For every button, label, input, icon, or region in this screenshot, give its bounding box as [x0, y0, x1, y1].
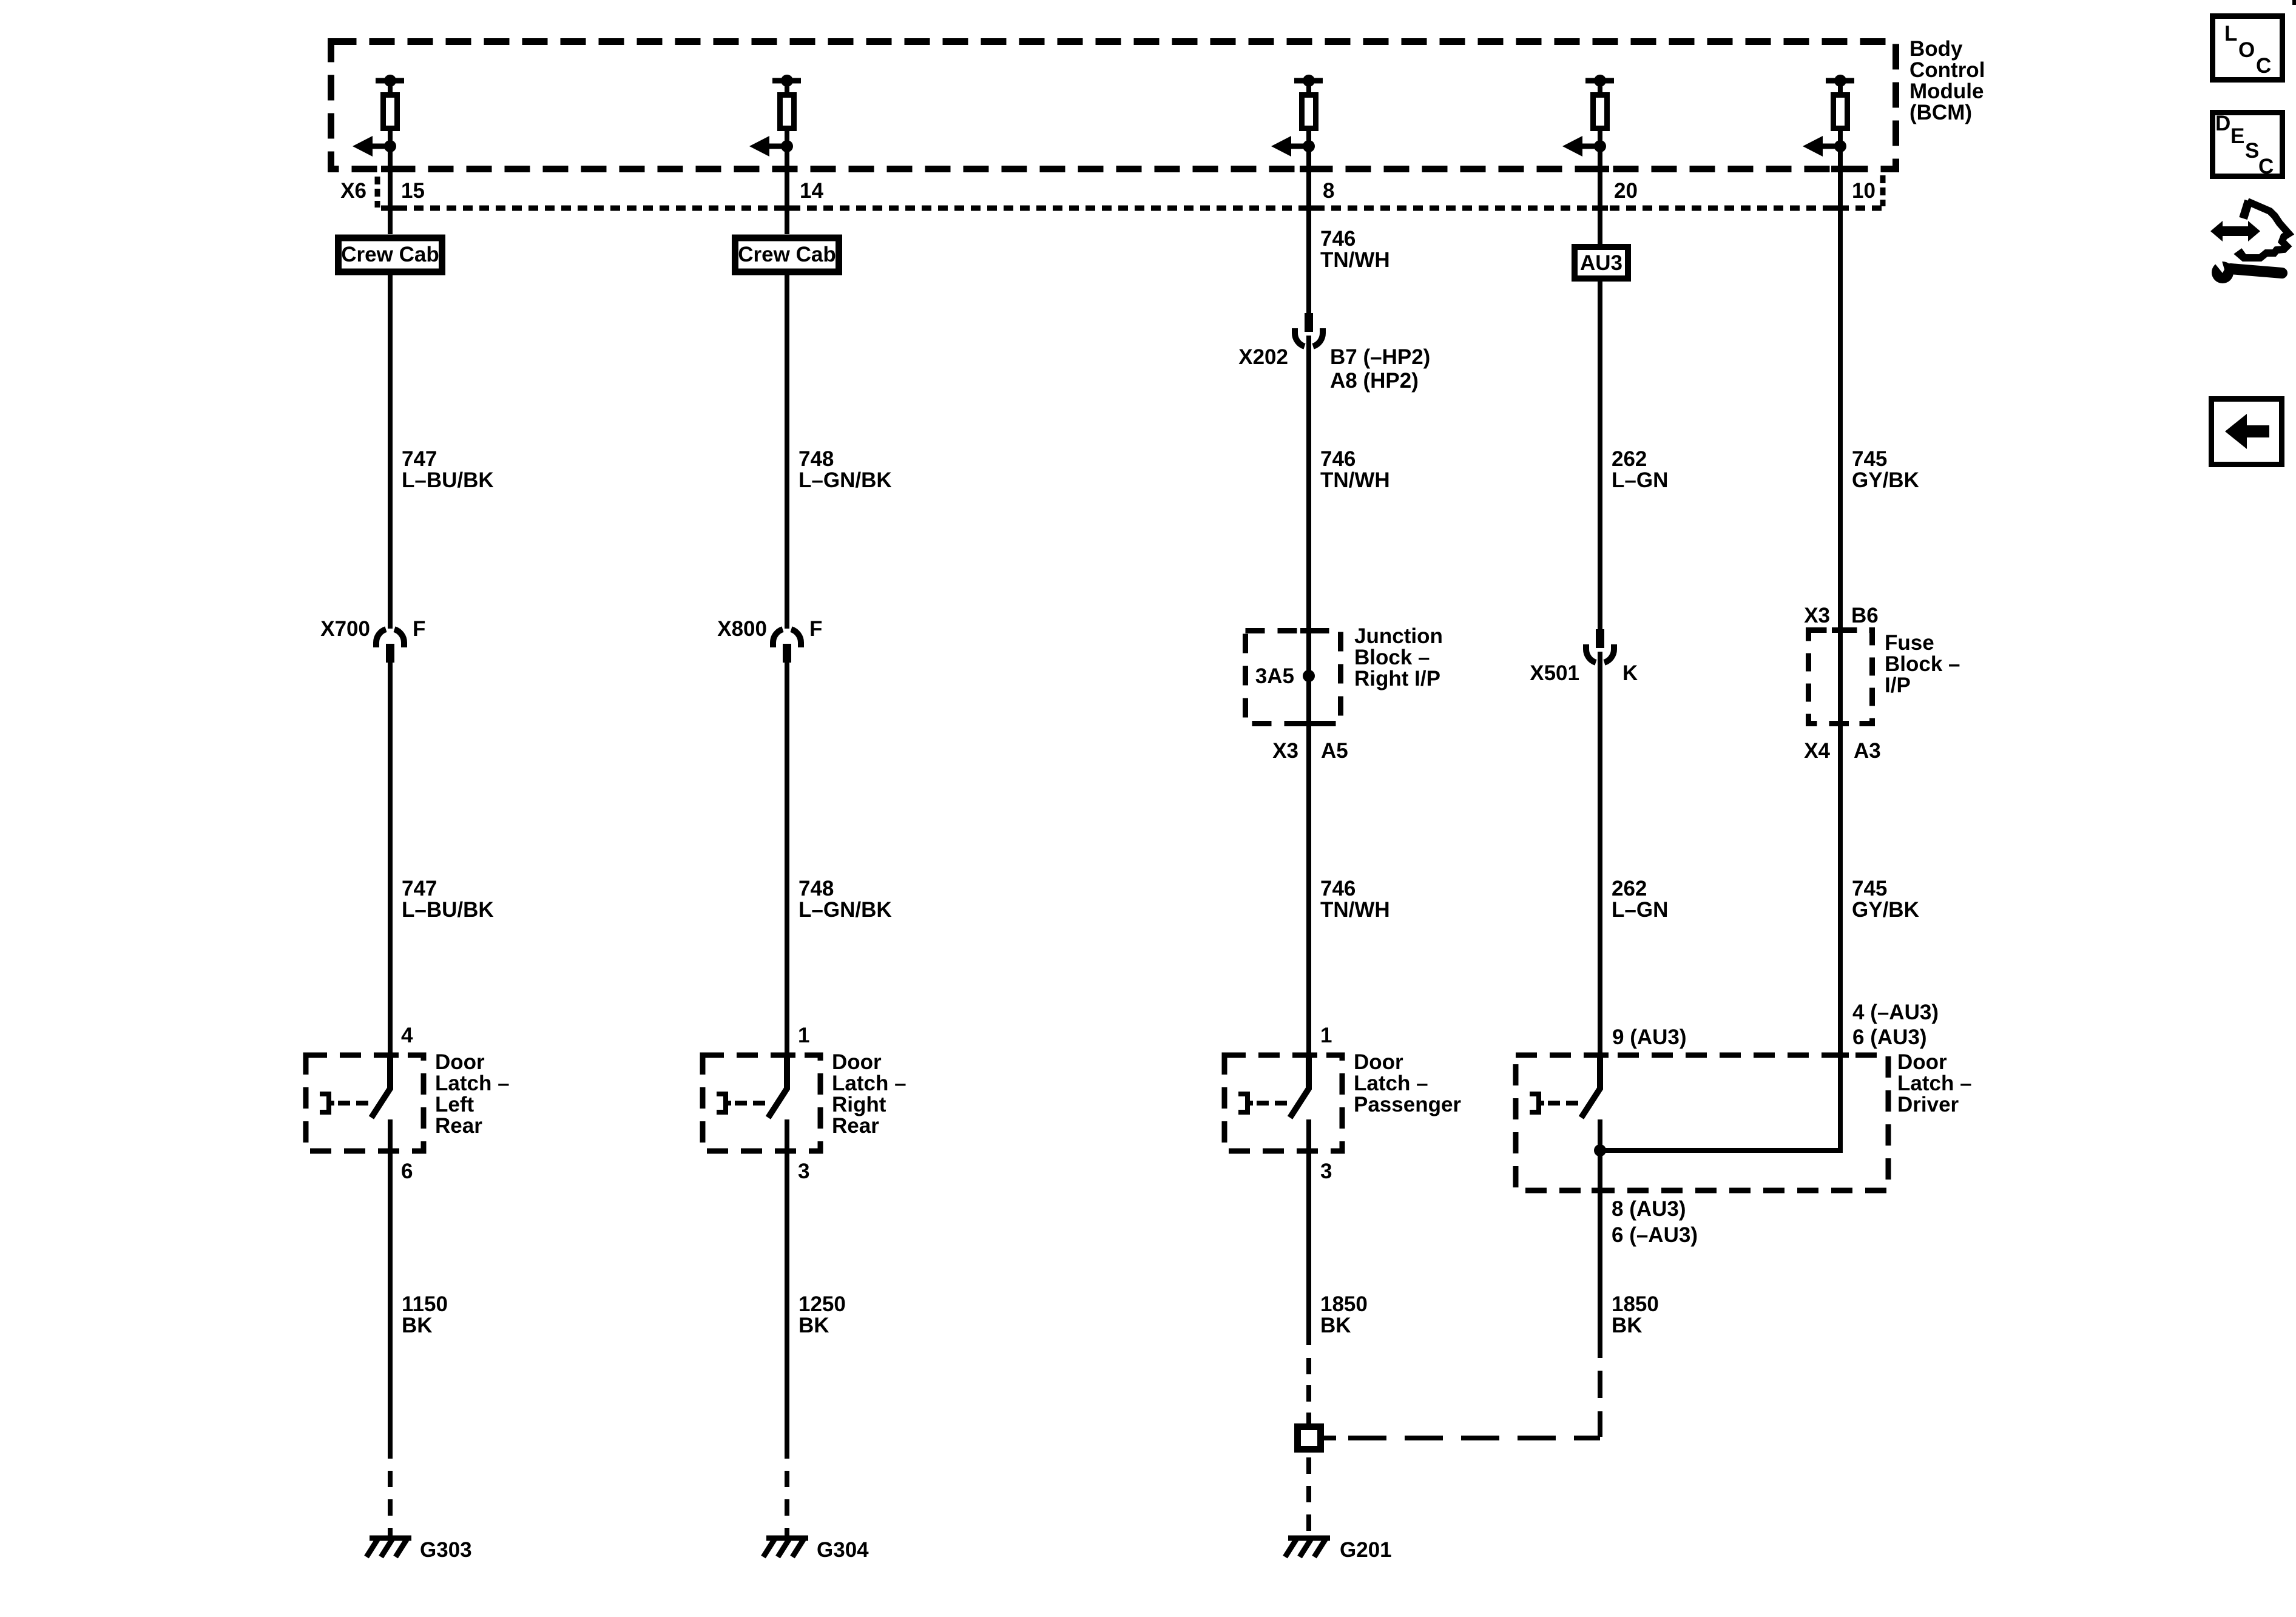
svg-text:C: C: [2258, 155, 2274, 178]
in-line connector X700 pin F: [376, 629, 404, 663]
svg-text:9 (AU3): 9 (AU3): [1612, 1025, 1687, 1049]
wire crossing tick (BCM bottom edge): [1831, 166, 1849, 172]
svg-text:Crew Cab: Crew Cab: [341, 243, 439, 266]
svg-text:A5: A5: [1321, 739, 1348, 763]
svg-text:1850: 1850: [1612, 1292, 1659, 1316]
BCM internal node dot + arrow (pin 10): [1803, 136, 1846, 157]
wire: Crew Cab to connector X700: [388, 274, 393, 629]
svg-text:747: 747: [402, 447, 437, 471]
svg-text:Latch –: Latch –: [435, 1072, 510, 1095]
Junction Block - Right I/P dashed box: [1246, 631, 1341, 724]
Body Control Module (BCM) dashed box: [331, 42, 1896, 169]
wire: Door Latch Driver down (1850 BK): [1598, 1190, 1602, 1358]
wire 4 crossing tick (driver box bottom): [1592, 1188, 1609, 1193]
BCM label text: [1909, 37, 1985, 124]
svg-text:BK: BK: [1612, 1314, 1643, 1337]
wire: BCM pin 8 to connector X202: [1306, 146, 1311, 314]
wire: X202 to Junction Block: [1306, 336, 1311, 628]
wire: BCM pin 10 to Fuse Block: [1838, 146, 1843, 627]
Door Latch - Passenger label: [1354, 1050, 1461, 1116]
wire label 748 L-GN/BK (lower): [799, 877, 892, 922]
wire label 745 GY/BK (lower): [1852, 877, 1919, 922]
ground symbol G304: [763, 1538, 808, 1557]
wire crossing tick (latch box bottom): [778, 1149, 795, 1154]
junction dot (driver latch to fuse feed): [1594, 1144, 1606, 1156]
BCM output driver / resistor (pin 15): [376, 75, 404, 146]
wire label 748 L-GN/BK (upper): [799, 447, 892, 492]
wire: X700 to Door Latch Left Rear: [388, 663, 393, 1055]
wire: driver latch lower contact through box: [1598, 1119, 1602, 1190]
svg-text:Block –: Block –: [1354, 646, 1430, 669]
connector label X501 / K: [1530, 661, 1638, 685]
Door Latch - Left Rear label: [435, 1050, 510, 1138]
door latch dashed box: [703, 1055, 820, 1151]
door latch switch contact (upper) + blade: [768, 1055, 787, 1118]
svg-text:8: 8: [1323, 179, 1334, 203]
svg-text:L–GN/BK: L–GN/BK: [799, 898, 892, 922]
wire crossing tick (BCM bottom edge): [1300, 166, 1318, 172]
wire crossing tick (latch box bottom): [1300, 1149, 1317, 1154]
BCM output driver / resistor (pin 20): [1585, 75, 1614, 146]
in-line connector X202: [1295, 313, 1323, 346]
wire crossing tick (X6 band): [1301, 206, 1317, 211]
svg-text:I/P: I/P: [1885, 673, 1911, 697]
svg-text:4: 4: [401, 1024, 413, 1047]
wire: X800 to Door Latch Right Rear: [785, 663, 789, 1055]
svg-text:746: 746: [1320, 877, 1356, 900]
svg-text:B6: B6: [1851, 604, 1879, 627]
wire: X501 to Door Latch Driver: [1598, 652, 1602, 1055]
svg-text:E: E: [2230, 124, 2244, 148]
wire 4 crossing tick (driver box top): [1592, 1053, 1609, 1058]
svg-text:Junction: Junction: [1354, 624, 1443, 648]
svg-text:746: 746: [1320, 447, 1356, 471]
wire 5 crossing tick (driver box top): [1832, 1053, 1849, 1058]
svg-text:Door: Door: [832, 1050, 882, 1074]
svg-text:6 (AU3): 6 (AU3): [1852, 1025, 1927, 1049]
svg-text:262: 262: [1612, 447, 1647, 471]
svg-text:TN/WH: TN/WH: [1320, 248, 1390, 272]
connector label X700 / F: [320, 617, 425, 641]
svg-text:1: 1: [798, 1024, 809, 1047]
Crew Cab option box: [339, 238, 442, 272]
wire crossing tick (X6 band): [1832, 206, 1848, 211]
wire crossing tick (X6 band): [1592, 206, 1608, 211]
svg-text:1150: 1150: [402, 1292, 448, 1316]
wire label 747 L-BU/BK (lower): [402, 877, 494, 922]
wire: BCM pin 14 to Crew Cab box: [785, 146, 789, 234]
svg-text:15: 15: [401, 179, 425, 203]
wire: BCM pin 20 to AU3 box: [1598, 146, 1602, 244]
svg-text:Rear: Rear: [832, 1114, 879, 1138]
dashed link (vertical, wire 1850 BK driver): [1598, 1371, 1602, 1437]
connector pins X3 / A5 label: [1272, 739, 1348, 763]
BCM internal node dot + arrow (pin 15): [353, 136, 396, 157]
svg-text:3: 3: [798, 1160, 809, 1183]
svg-text:K: K: [1622, 661, 1638, 685]
svg-text:D: D: [2215, 112, 2230, 135]
BCM internal node dot + arrow (pin 8): [1271, 136, 1315, 157]
door latch dashed box: [306, 1055, 424, 1151]
svg-text:(BCM): (BCM): [1909, 101, 1972, 124]
svg-text:Rear: Rear: [435, 1114, 482, 1138]
wire crossing tick (X6 band): [382, 206, 398, 211]
svg-text:L–GN: L–GN: [1612, 898, 1668, 922]
svg-text:GY/BK: GY/BK: [1852, 468, 1919, 492]
wire crossing tick (fuse block bottom): [1832, 721, 1849, 726]
svg-text:AU3: AU3: [1580, 251, 1622, 275]
splice junction square: [1298, 1427, 1321, 1450]
svg-text:BK: BK: [402, 1314, 433, 1337]
wire crossing tick (latch box bottom): [382, 1149, 399, 1154]
svg-text:746: 746: [1320, 227, 1356, 251]
svg-text:6 (–AU3): 6 (–AU3): [1612, 1223, 1698, 1247]
svg-text:G201: G201: [1340, 1538, 1392, 1562]
latch mechanical linkage symbol: [320, 1094, 371, 1112]
svg-text:X800: X800: [717, 617, 767, 641]
wire crossing tick (junction block bottom): [1300, 721, 1317, 726]
wire crossing tick (BCM bottom edge): [381, 166, 399, 172]
svg-text:Latch –: Latch –: [832, 1072, 907, 1095]
in-line connector X501 pin K: [1586, 629, 1614, 663]
latch mechanical linkage symbol: [1530, 1094, 1581, 1112]
Door Latch - Driver label: [1897, 1050, 1972, 1116]
X6 band right separator: [1880, 175, 1886, 206]
svg-text:B7 (–HP2): B7 (–HP2): [1330, 345, 1430, 369]
wire label 262 L-GN (lower): [1612, 877, 1668, 922]
wire crossing tick (X6 band): [779, 206, 795, 211]
svg-text:TN/WH: TN/WH: [1320, 468, 1390, 492]
svg-text:X3: X3: [1804, 604, 1830, 627]
svg-text:3: 3: [1320, 1160, 1332, 1183]
wire: Door Latch Left Rear to ground lead: [388, 1151, 393, 1459]
svg-text:4 (–AU3): 4 (–AU3): [1852, 1001, 1939, 1024]
svg-text:Passenger: Passenger: [1354, 1093, 1461, 1116]
svg-text:Door: Door: [1897, 1050, 1947, 1074]
X6 band left separator: [375, 177, 380, 208]
svg-text:Block –: Block –: [1885, 652, 1960, 676]
connector pins X4 / A3 label: [1804, 739, 1881, 763]
wire label 746 TN/WH (mid): [1320, 447, 1390, 492]
Junction Block - Right I/P label: [1354, 624, 1443, 690]
svg-text:20: 20: [1614, 179, 1638, 203]
dashed ground lead G201: [1306, 1453, 1311, 1536]
door latch switch contact (lower): [785, 1119, 789, 1151]
wire label 746 TN/WH (lower): [1320, 877, 1390, 922]
svg-text:TN/WH: TN/WH: [1320, 898, 1390, 922]
svg-text:748: 748: [799, 877, 834, 900]
svg-text:745: 745: [1852, 447, 1887, 471]
BCM output driver / resistor (pin 10): [1826, 75, 1854, 146]
connector label X800 / F: [717, 617, 822, 641]
door latch switch contact (lower): [388, 1119, 393, 1151]
svg-text:Crew Cab: Crew Cab: [738, 243, 836, 266]
latch mechanical linkage symbol: [1238, 1094, 1290, 1112]
wire label 1850 BK (driver): [1612, 1292, 1659, 1337]
svg-text:Door: Door: [1354, 1050, 1403, 1074]
DESC icon box: [2213, 112, 2283, 178]
wire label 262 L-GN (upper): [1612, 447, 1668, 492]
wire crossing tick (latch box top): [1300, 1053, 1317, 1058]
svg-text:1250: 1250: [799, 1292, 846, 1316]
back arrow icon box: [2212, 399, 2282, 465]
svg-text:Module: Module: [1909, 79, 1984, 103]
svg-text:1: 1: [1320, 1024, 1332, 1047]
door latch switch contact (upper) + blade: [371, 1055, 390, 1118]
dashed ground lead G303: [388, 1471, 393, 1536]
svg-text:X700: X700: [320, 617, 370, 641]
door latch switch contact (lower): [1306, 1119, 1311, 1151]
svg-text:748: 748: [799, 447, 834, 471]
wire: Crew Cab to connector X800: [785, 274, 789, 629]
in-line connector X800 pin F: [773, 629, 801, 663]
Door Latch - Right Rear label: [832, 1050, 907, 1138]
pins 8 (AU3) / 6 (-AU3) label: [1612, 1197, 1698, 1247]
wire: Fuse Block to Door Latch Driver (745 GY/BK), corner into latch: [1602, 627, 1840, 1150]
svg-text:F: F: [413, 617, 425, 641]
svg-text:Left: Left: [435, 1093, 474, 1116]
diagnostic/test hand icon: hand outline: [2240, 201, 2289, 258]
wire: AU3 to connector X501: [1598, 282, 1602, 630]
door latch dashed box: [1224, 1055, 1342, 1151]
wire crossing tick (latch box top): [382, 1053, 399, 1058]
wire label 746 TN/WH (top): [1320, 227, 1390, 272]
door latch switch contact (upper) + blade: [1290, 1055, 1309, 1118]
LOC icon box: [2213, 16, 2283, 80]
svg-text:S: S: [2245, 139, 2259, 163]
svg-text:Latch –: Latch –: [1897, 1072, 1972, 1095]
svg-text:BK: BK: [1320, 1314, 1351, 1337]
svg-text:O: O: [2238, 38, 2255, 62]
latch mechanical linkage symbol: [717, 1094, 768, 1112]
ground symbol G201: [1285, 1538, 1330, 1557]
svg-text:262: 262: [1612, 877, 1647, 900]
svg-text:GY/BK: GY/BK: [1852, 898, 1919, 922]
svg-text:L–GN: L–GN: [1612, 468, 1668, 492]
svg-text:F: F: [809, 617, 822, 641]
wire crossing tick (latch box top): [778, 1053, 795, 1058]
svg-text:Fuse: Fuse: [1885, 631, 1934, 655]
connector X6 pin band dotted line: [381, 206, 1883, 211]
dashed link splice to driver latch ground lead (horizontal): [1348, 1436, 1600, 1440]
diagnostic/test hand icon: double arrow: [2210, 221, 2260, 241]
svg-text:L–GN/BK: L–GN/BK: [799, 468, 892, 492]
svg-text:Right: Right: [832, 1093, 886, 1116]
wire: Door Latch Passenger down (1850 BK): [1306, 1151, 1311, 1345]
Fuse Block - I/P dashed box: [1809, 630, 1872, 724]
svg-text:C: C: [2256, 54, 2271, 78]
svg-text:L: L: [2224, 22, 2237, 46]
BCM output driver / resistor (pin 14): [772, 75, 801, 146]
svg-text:10: 10: [1852, 179, 1876, 203]
wire label 1250 BK: [799, 1292, 846, 1337]
wire: Door Latch Right Rear to ground lead: [785, 1151, 789, 1459]
svg-text:1850: 1850: [1320, 1292, 1368, 1316]
ground symbol G303: [366, 1538, 411, 1557]
svg-text:X3: X3: [1272, 739, 1298, 763]
svg-text:747: 747: [402, 877, 437, 900]
svg-text:14: 14: [800, 179, 823, 203]
wire label 1850 BK (passenger): [1320, 1292, 1368, 1337]
svg-text:Control: Control: [1909, 58, 1985, 82]
svg-text:Right I/P: Right I/P: [1354, 667, 1440, 690]
svg-text:X202: X202: [1238, 345, 1288, 369]
wire label 1150 BK: [402, 1292, 448, 1337]
splice right stub: [1323, 1436, 1336, 1440]
Fuse Block - I/P label: [1885, 631, 1960, 697]
door latch switch contact (lower): [1598, 1119, 1602, 1151]
svg-text:BK: BK: [799, 1314, 829, 1337]
svg-text:745: 745: [1852, 877, 1887, 900]
wire: Junction Block to Door Latch Passenger: [1306, 726, 1311, 1055]
wire crossing tick (junction block top): [1300, 628, 1317, 633]
pins 4 (-AU3) / 6 (AU3) label: [1852, 1001, 1939, 1049]
connector pins X3 / B6 label: [1804, 604, 1879, 627]
svg-text:3A5: 3A5: [1255, 664, 1294, 688]
wire: BCM pin 15 to Crew Cab box: [388, 146, 393, 234]
svg-text:L–BU/BK: L–BU/BK: [402, 898, 494, 922]
node 3A5 dot: [1303, 670, 1315, 682]
dashed lead to splice: [1306, 1358, 1311, 1423]
wire crossing tick (BCM bottom edge): [778, 166, 796, 172]
BCM internal node dot + arrow (pin 14): [749, 136, 793, 157]
svg-text:X4: X4: [1804, 739, 1830, 763]
Door Latch - Driver dashed box: [1516, 1055, 1888, 1190]
BCM internal node dot + arrow (pin 20): [1562, 136, 1606, 157]
svg-text:X501: X501: [1530, 661, 1579, 685]
BCM output driver / resistor (pin 8): [1294, 75, 1323, 146]
door latch switch contact (upper) + blade: [1581, 1055, 1600, 1118]
connector label X202 / B7 (-HP2) A8 (HP2): [1238, 345, 1430, 393]
page corner mark: [2292, 0, 2296, 5]
wire crossing tick (fuse block top): [1832, 627, 1849, 633]
wire crossing tick (BCM bottom edge): [1591, 166, 1609, 172]
svg-text:8 (AU3): 8 (AU3): [1612, 1197, 1686, 1221]
svg-text:X6: X6: [340, 179, 366, 203]
svg-text:Driver: Driver: [1897, 1093, 1959, 1116]
wire label 747 L-BU/BK (upper): [402, 447, 494, 492]
diagnostic/test hand icon: wrench: [2212, 259, 2282, 283]
wire through junction block: [1306, 628, 1311, 726]
svg-text:Latch –: Latch –: [1354, 1072, 1428, 1095]
AU3 option box: [1575, 247, 1628, 279]
wire label 745 GY/BK (upper): [1852, 447, 1919, 492]
Crew Cab option box: [735, 238, 839, 272]
svg-text:A8 (HP2): A8 (HP2): [1330, 369, 1419, 393]
svg-text:Door: Door: [435, 1050, 485, 1074]
svg-text:G304: G304: [817, 1538, 869, 1562]
dashed ground lead G304: [785, 1471, 789, 1536]
svg-text:6: 6: [401, 1160, 413, 1183]
svg-text:Body: Body: [1909, 37, 1963, 61]
svg-text:L–BU/BK: L–BU/BK: [402, 468, 494, 492]
svg-text:G303: G303: [420, 1538, 472, 1562]
svg-text:A3: A3: [1854, 739, 1881, 763]
